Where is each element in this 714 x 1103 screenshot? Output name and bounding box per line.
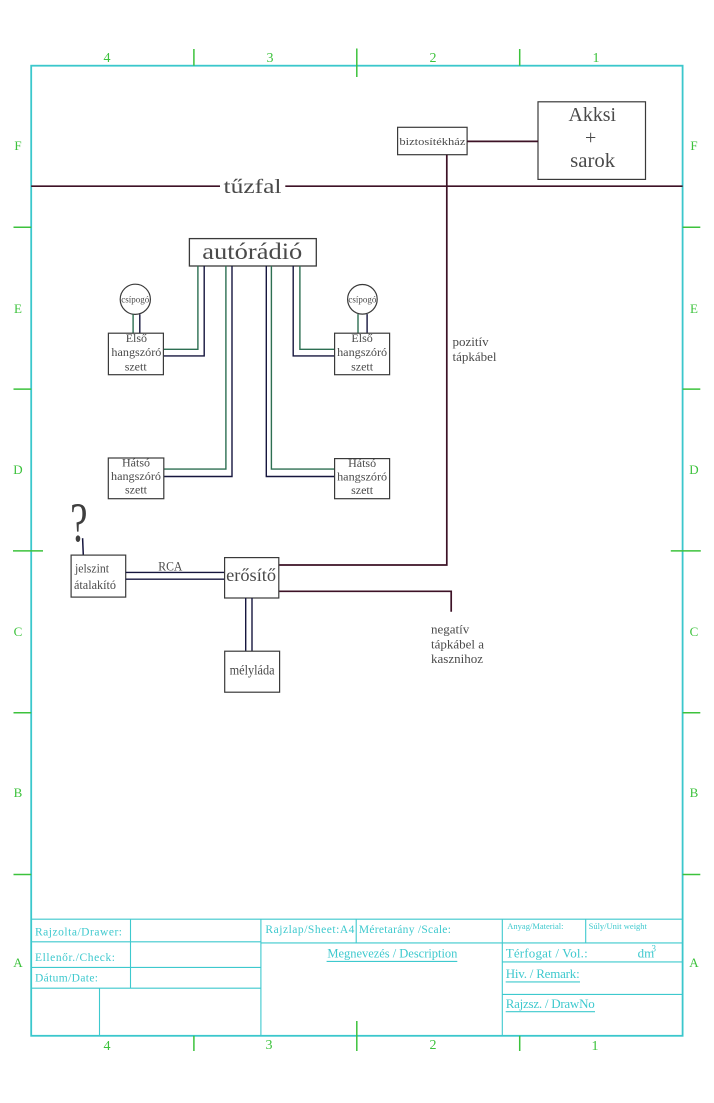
svg-text:szett: szett	[351, 483, 374, 497]
svg-text:hangszóró: hangszóró	[111, 345, 161, 359]
fuse box: biztositekhaz	[398, 127, 468, 154]
wire: fuse box to battery (maroon)	[467, 140, 538, 142]
label: negativ tapkabel a kasznihoz	[431, 622, 484, 667]
svg-text:Ellenőr./Check:: Ellenőr./Check:	[35, 952, 115, 964]
svg-text:+: +	[585, 127, 596, 149]
speaker set: left front (Elso hangszoro szett)	[108, 331, 163, 375]
svg-text:4: 4	[104, 51, 111, 66]
svg-text:4: 4	[104, 1039, 111, 1054]
svg-text:E: E	[690, 301, 698, 316]
svg-text:Első: Első	[126, 331, 147, 345]
svg-text:Megnevezés / Description: Megnevezés / Description	[327, 947, 458, 961]
label: pozitiv tapkabel	[453, 334, 497, 364]
svg-text:pozitív: pozitív	[453, 334, 490, 349]
svg-text:Akksi: Akksi	[569, 104, 617, 126]
svg-text:B: B	[14, 785, 23, 800]
RCA cable pair (navy) level converter to amplifier	[126, 572, 225, 579]
svg-text:csípogó: csípogó	[348, 296, 376, 306]
wire: question mark to level converter (navy)	[82, 538, 85, 555]
svg-text:3: 3	[652, 944, 657, 954]
svg-text:szett: szett	[125, 483, 148, 497]
svg-text:kasznihoz: kasznihoz	[431, 651, 483, 666]
svg-text:Dátum/Date:: Dátum/Date:	[35, 973, 98, 985]
svg-text:szett: szett	[125, 360, 148, 374]
svg-text:Súly/Unit weight: Súly/Unit weight	[589, 921, 648, 931]
wire pair: radio to right front speaker set	[293, 266, 334, 356]
speaker set: right rear (Hatso hangszoro szett)	[335, 456, 390, 499]
wire pair: right tweeter to right front speaker set	[358, 314, 367, 333]
svg-text:hangszóró: hangszóró	[111, 469, 161, 483]
speaker set: left rear (Hatso hangszoro szett)	[108, 456, 164, 499]
svg-text:A: A	[689, 955, 699, 970]
svg-text:csípogó: csípogó	[121, 296, 149, 306]
svg-text:F: F	[690, 138, 697, 153]
svg-text:biztosítékház: biztosítékház	[399, 136, 465, 148]
svg-text:C: C	[14, 624, 23, 639]
speaker set: right front (Elso hangszoro szett)	[335, 331, 390, 375]
head unit: autoradio	[189, 239, 316, 266]
svg-text:Hátsó: Hátsó	[122, 456, 150, 470]
svg-text:Rajzsz. / DrawNo: Rajzsz. / DrawNo	[506, 996, 595, 1011]
tweeter right: csipogo	[348, 285, 378, 315]
svg-text:2: 2	[430, 51, 437, 66]
svg-text:Első: Első	[351, 331, 372, 345]
svg-text:?: ?	[70, 492, 87, 553]
svg-text:E: E	[14, 301, 22, 316]
battery: Akksi + sarok	[538, 102, 646, 180]
svg-text:Rajzolta/Drawer:: Rajzolta/Drawer:	[35, 926, 122, 938]
svg-text:Rajzlap/Sheet:A4: Rajzlap/Sheet:A4	[265, 924, 354, 936]
wire pair: amplifier to subwoofer (navy)	[246, 598, 252, 651]
svg-text:C: C	[690, 624, 699, 639]
wire pair: radio to left rear speaker set	[164, 266, 232, 477]
wire: negative supply cable (maroon) from amplifier to chassis	[279, 591, 451, 612]
firewall line: tuzfal (maroon)	[31, 185, 682, 187]
svg-text:3: 3	[267, 51, 274, 66]
svg-text:átalakító: átalakító	[74, 577, 116, 592]
svg-text:tápkábel a: tápkábel a	[431, 637, 484, 652]
svg-text:Anyag/Material:: Anyag/Material:	[507, 921, 563, 931]
svg-text:tűzfal: tűzfal	[224, 176, 283, 198]
svg-text:sarok: sarok	[570, 150, 615, 172]
svg-text:hangszóró: hangszóró	[337, 469, 387, 483]
svg-text:RCA: RCA	[158, 559, 183, 574]
svg-text:jelszint: jelszint	[74, 561, 109, 576]
svg-text:negatív: negatív	[431, 622, 470, 637]
subwoofer: melylada	[225, 651, 280, 692]
svg-text:2: 2	[430, 1038, 437, 1053]
svg-text:F: F	[14, 138, 21, 153]
wire pair: left tweeter to left front speaker set	[133, 314, 140, 333]
svg-text:Hiv. / Remark:: Hiv. / Remark:	[506, 966, 580, 981]
level converter: jelszint atalakito	[71, 555, 126, 597]
svg-text:erősítő: erősítő	[226, 565, 276, 585]
svg-text:mélyláda: mélyláda	[230, 664, 276, 679]
title block	[31, 919, 682, 1036]
svg-text:autórádió: autórádió	[202, 239, 302, 264]
svg-text:1: 1	[592, 1039, 599, 1054]
svg-text:Térfogat / Vol.:: Térfogat / Vol.:	[506, 946, 588, 961]
svg-text:hangszóró: hangszóró	[337, 345, 387, 359]
tweeter left: csipogo	[120, 284, 150, 314]
svg-text:tápkábel: tápkábel	[453, 349, 497, 364]
svg-text:Méretarány /Scale:: Méretarány /Scale:	[359, 924, 451, 936]
amplifier: erosito	[225, 558, 279, 598]
wire: positive supply cable (maroon) fuse box down to amplifier	[279, 155, 447, 565]
svg-text:B: B	[690, 785, 699, 800]
svg-text:3: 3	[266, 1038, 273, 1053]
svg-text:D: D	[689, 462, 698, 477]
wire pair: radio to right rear speaker set	[266, 266, 334, 477]
svg-text:szett: szett	[351, 360, 374, 374]
svg-text:Hátsó: Hátsó	[348, 456, 376, 470]
svg-text:A: A	[13, 955, 23, 970]
wire pair: radio to left front speaker set	[163, 266, 204, 356]
svg-text:D: D	[13, 462, 22, 477]
svg-text:1: 1	[593, 51, 600, 66]
